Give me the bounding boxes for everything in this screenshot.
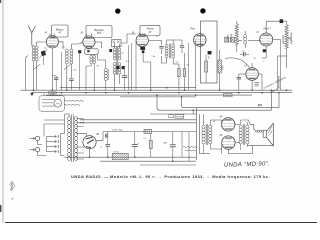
rectifier V8 — [83, 136, 96, 149]
wire V3 stubs — [139, 33, 141, 35]
resistor R3 — [205, 61, 208, 72]
wire V2 cathode — [88, 47, 90, 50]
wire V5 leads — [265, 46, 267, 58]
bottom wire out — [200, 153, 211, 155]
wire V5 top — [266, 21, 279, 33]
speaker wires — [228, 146, 252, 154]
OT leads — [240, 120, 242, 125]
wire V1 plate — [59, 42, 64, 49]
rail hook — [192, 110, 194, 114]
shield V4 — [201, 21, 218, 83]
wire x280.5 — [280, 40, 282, 91]
bus tag 2 — [224, 93, 232, 96]
wire V3 left — [135, 42, 137, 90]
wire R3 leads — [205, 54, 207, 61]
rect right lead — [96, 132, 103, 141]
bottom line 2 — [100, 160, 196, 162]
V9 wires — [210, 120, 221, 123]
blob V2 left — [78, 50, 81, 53]
terminal P1 — [36, 136, 40, 140]
dial box — [39, 96, 65, 111]
box V3 type — [140, 25, 160, 35]
bus tag 1 — [49, 91, 57, 94]
cap Cg1 — [69, 79, 73, 81]
electrolytic E2 — [132, 145, 138, 147]
tube V10 — [222, 136, 235, 149]
resistor R2 — [183, 69, 186, 77]
IT core — [205, 124, 207, 145]
cap stack V6 — [255, 82, 259, 86]
bottom junctions — [89, 156, 91, 158]
coil L3 osc2 — [104, 69, 107, 81]
wire x188 — [188, 43, 190, 90]
osc box V2 — [85, 49, 99, 55]
left margin mark — [0, 205, 1, 212]
tube V2 — [83, 36, 95, 48]
svg-text:0,1: 0,1 — [45, 48, 48, 50]
wire trimmer down — [42, 56, 44, 65]
cap C8 — [237, 77, 241, 79]
coil L2 secondary — [70, 49, 73, 64]
dial lamp — [54, 99, 62, 107]
field coil — [285, 25, 288, 49]
OT primary — [239, 125, 242, 144]
bus line 1 — [60, 87, 196, 89]
wire V1 top stubs — [49, 34, 51, 37]
B+ rail — [103, 131, 196, 133]
tuning arrow L2 — [64, 64, 71, 70]
svg-text:0,1: 0,1 — [74, 70, 77, 72]
tube V4 — [194, 34, 207, 47]
wire x277 — [277, 56, 279, 90]
blob IF1 left — [109, 49, 112, 52]
tube V6 — [246, 68, 259, 81]
mains transformer core — [71, 115, 73, 163]
resistor R4 — [218, 60, 221, 73]
wire R4 leads — [219, 50, 221, 60]
core L3 — [107, 69, 109, 80]
terminal P2 — [36, 148, 40, 152]
svg-text:551: 551 — [97, 31, 102, 35]
trimmer X1 — [225, 38, 229, 43]
speaker voice coil — [255, 130, 257, 132]
antenna A — [28, 26, 35, 46]
wire V6 leads — [251, 63, 253, 68]
wire upper links — [44, 119, 65, 121]
electrolytic E3 — [170, 145, 176, 147]
speaker driver — [263, 130, 266, 137]
wire P1 link — [38, 141, 42, 145]
bus line 5 — [120, 96, 196, 98]
wire IF2 top link — [167, 39, 174, 41]
punch dot right — [200, 8, 205, 13]
tag box A — [169, 115, 174, 118]
IF1 coil d — [118, 62, 121, 74]
IF1 leads — [114, 43, 116, 48]
bottom line 1 — [65, 156, 197, 158]
corner tick — [0, 0, 1, 3]
tuning arrow L1 — [33, 64, 40, 70]
verticals right of psu — [181, 132, 183, 158]
wire x195.6 — [195, 40, 197, 90]
wire aux left — [25, 58, 27, 90]
svg-text:G.E.D. 350: G.E.D. 350 — [112, 129, 123, 131]
tag box B — [175, 115, 184, 119]
wire L1 leads — [32, 45, 34, 47]
wire L5 link — [244, 31, 246, 35]
tube V1 — [46, 36, 58, 48]
primary top leads — [68, 114, 70, 117]
IF1 core — [116, 47, 118, 75]
trimmer CV1 — [41, 51, 46, 57]
arrow P2 — [30, 149, 35, 151]
filament hooks — [79, 119, 81, 120]
blob V3 bottom — [140, 47, 145, 50]
svg-text:2w: 2w — [186, 65, 190, 67]
terminal sq — [280, 19, 284, 23]
feed riser right A — [271, 90, 273, 110]
wire x131.5 — [131, 43, 133, 90]
filament line 2 — [80, 122, 196, 124]
box V1 type — [52, 25, 69, 37]
outputs left rail — [196, 108, 198, 160]
IF1 top box — [112, 40, 122, 47]
svg-text:Peq: Peq — [190, 28, 195, 31]
bus line 3 — [32, 92, 292, 94]
mains secondary — [75, 117, 78, 161]
bus line 4 — [46, 94, 252, 96]
box V2 type — [86, 26, 112, 38]
cap C5 — [159, 47, 163, 49]
wire L4 leads — [236, 45, 238, 52]
wire R2 leads — [184, 53, 186, 69]
arc wire — [225, 58, 250, 68]
wire V3 cathode — [142, 53, 144, 62]
wire P2 link — [38, 152, 46, 156]
svg-text:M: M — [257, 32, 259, 34]
cap C10 — [106, 134, 107, 138]
feed wire A — [157, 95, 272, 110]
resistor R1 — [178, 69, 181, 77]
coil L1 primary — [32, 46, 35, 61]
wire IF1 to V3 — [121, 34, 136, 43]
IF1 coil a — [113, 48, 116, 60]
osc coil a — [90, 55, 93, 63]
punch dot left — [115, 8, 120, 13]
rect top link — [77, 134, 87, 137]
svg-text:0,1: 0,1 — [176, 62, 179, 64]
page left edge line — [2, 0, 4, 223]
wire L3 leads — [98, 54, 106, 68]
arrow P1 — [30, 137, 35, 139]
switch bank — [47, 136, 57, 138]
filament line 1 — [80, 119, 196, 121]
wire R1 leads — [178, 64, 180, 69]
IF1 coil b — [118, 48, 121, 60]
wire x285 down — [286, 56, 288, 68]
tube V9 — [222, 118, 235, 131]
svg-text:Pent 7: Pent 7 — [264, 27, 272, 31]
wire x128 — [128, 45, 130, 90]
wire V2 top stubs — [86, 34, 88, 37]
IF1 coil c — [113, 62, 116, 74]
note elettrolitico — [183, 147, 197, 148]
svg-text:0,1: 0,1 — [254, 58, 257, 60]
coil L5 — [244, 35, 247, 44]
cap C6 — [180, 46, 184, 48]
wire x61.5 — [61, 52, 63, 90]
field coil arrow — [289, 38, 293, 42]
IT primary — [202, 125, 205, 144]
svg-text:G.E.D.: G.E.D. — [113, 152, 119, 154]
note comando — [64, 100, 84, 101]
OT secondary — [246, 125, 249, 144]
IF1 trimmers — [116, 66, 119, 69]
coil L1 secondary — [35, 46, 38, 61]
svg-text:autotrasf: autotrasf — [282, 35, 285, 44]
wire field leads — [286, 21, 288, 24]
OT core — [242, 124, 244, 145]
wire V1 cathode — [51, 48, 53, 90]
IF2 leads — [166, 40, 168, 45]
osc coil b — [93, 55, 96, 63]
svg-text:UNDA RADIO. — Modello «M. L. 9: UNDA RADIO. — Modello «M. L. 90 ». - Pro… — [71, 174, 270, 179]
dial leads — [43, 93, 45, 96]
IF2 core — [168, 44, 170, 59]
filter cap E1 — [105, 144, 110, 146]
choke box — [112, 153, 128, 159]
small box on B+ — [144, 129, 152, 133]
coil L2 primary — [65, 49, 68, 64]
wire x173 down — [173, 63, 179, 65]
secondary taps — [76, 118, 83, 120]
IT leads — [203, 114, 205, 125]
feed dash — [258, 104, 261, 106]
wire R6 — [150, 133, 152, 140]
IF2 coil a — [165, 45, 168, 58]
wire V2 grid lead — [76, 42, 83, 44]
speaker horn — [267, 123, 274, 146]
OT top wire — [241, 120, 250, 124]
IF2 coil b — [172, 45, 175, 58]
dial text — [42, 98, 55, 101]
ground symbol — [30, 93, 34, 96]
svg-text:1: 1 — [79, 56, 80, 58]
wire L2 leads — [66, 64, 68, 90]
blob V4 — [208, 51, 212, 54]
wire osc leads — [90, 54, 92, 55]
svg-text:altoparlante: altoparlante — [277, 75, 280, 88]
tube V3 — [136, 34, 148, 46]
wire V2 plate — [95, 42, 102, 48]
IT secondary — [209, 125, 212, 144]
osc coil L4 — [235, 24, 238, 46]
bus junctions — [33, 89, 35, 91]
line y114 — [150, 113, 197, 115]
bus line 2 — [21, 89, 293, 91]
svg-text:R75: R75 — [222, 65, 225, 70]
IF1 bottom cap — [122, 76, 128, 78]
rect bottom lead — [89, 149, 91, 157]
bottom line 3 — [140, 164, 196, 166]
V10 wires — [210, 145, 221, 150]
svg-text:2 f: 2 f — [143, 138, 147, 140]
cap C2 — [52, 75, 56, 77]
mains primary — [68, 117, 71, 161]
feed riser right B — [278, 93, 280, 108]
page bottom edge line — [5, 222, 317, 224]
wire V3 plate — [148, 40, 161, 45]
speaker body — [250, 124, 255, 129]
trimmer X2 — [230, 38, 234, 43]
feed wire B — [182, 97, 280, 108]
tube V5 — [260, 33, 273, 46]
switch common — [61, 134, 65, 156]
cap C7 — [244, 52, 246, 56]
blob V5 — [263, 49, 266, 52]
resistor R6 — [149, 140, 152, 148]
